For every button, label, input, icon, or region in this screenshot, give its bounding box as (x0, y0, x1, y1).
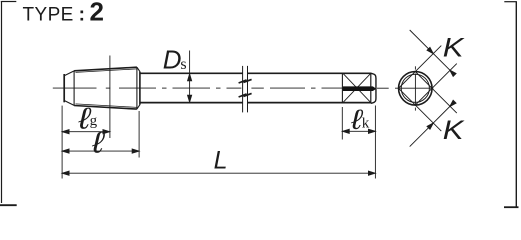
extension of SE edge beyond right corner (432, 64, 457, 89)
frame bottom-left tick (0, 204, 17, 206)
square diamond (399, 72, 433, 106)
shank top line left of break (140, 72, 243, 74)
centerline of tap (dash-dot segments) (53, 87, 434, 89)
left extension line (tip) (61, 106, 63, 179)
Ds dimension line (189, 51, 191, 103)
square edge band (thick black) (343, 86, 377, 91)
svg-text:s: s (180, 56, 186, 73)
taper end chamfer bottom (137, 105, 140, 109)
taper inner bottom line (76, 104, 137, 108)
svg-text:K: K (443, 116, 465, 146)
extension of NE edge beyond right corner (432, 88, 457, 113)
svg-text:L: L (214, 147, 228, 175)
lk left extension line (341, 107, 343, 140)
frame top-right tick (504, 1, 517, 3)
tip edge line (73, 71, 75, 106)
square section diagonal 2 (343, 73, 371, 102)
gauge plane line (109, 56, 111, 139)
square section left boundary (341, 73, 343, 104)
end view inner circle (401, 74, 429, 102)
taper end face (139, 72, 141, 105)
extension of NW edge beyond top corner (415, 46, 441, 72)
tip chamfer top (64, 71, 74, 76)
break line 1 (242, 66, 244, 113)
end cap (371, 73, 376, 103)
break line 2 (247, 66, 249, 113)
lk dimension line (342, 130, 375, 132)
taper inner top line (76, 69, 137, 73)
frame left vertical line (1, 2, 3, 204)
upper K dimension line (410, 30, 455, 75)
square section diagonal 1 (343, 73, 371, 102)
lg dimension line (62, 131, 110, 133)
l extension line (138, 111, 140, 158)
frame bottom-right tick (504, 206, 519, 208)
taper bottom edge (74, 106, 137, 110)
svg-text:2: 2 (90, 0, 104, 27)
taper end edge (136, 67, 138, 109)
svg-text:K: K (443, 33, 465, 63)
l dimension line (62, 150, 139, 152)
frame right vertical line (515, 2, 517, 207)
shank top line right of break (248, 72, 371, 74)
tip face (63, 74, 65, 102)
end view outer circle (399, 72, 433, 106)
shank bottom line left of break (140, 102, 243, 104)
svg-text:ℓ: ℓ (91, 125, 105, 159)
shank bottom line right of break (248, 102, 371, 104)
svg-text:D: D (163, 44, 182, 74)
taper end chamfer top (137, 67, 140, 71)
svg-text:k: k (362, 116, 370, 132)
lower K dimension line (410, 102, 455, 147)
break zigzag lower (239, 94, 247, 97)
extension of SW edge beyond bottom corner (415, 105, 441, 131)
square section right edge (370, 73, 372, 104)
taper top edge (74, 67, 137, 71)
break zigzag upper (239, 80, 247, 83)
end view vertical crosshair (414, 66, 416, 110)
tip chamfer bottom (64, 101, 74, 106)
right extension line (tap end) (374, 106, 376, 179)
svg-text:TYPE: TYPE (23, 4, 74, 25)
frame top-left tick (1, 1, 16, 3)
svg-text::: : (79, 4, 85, 25)
L dimension line (62, 172, 375, 174)
